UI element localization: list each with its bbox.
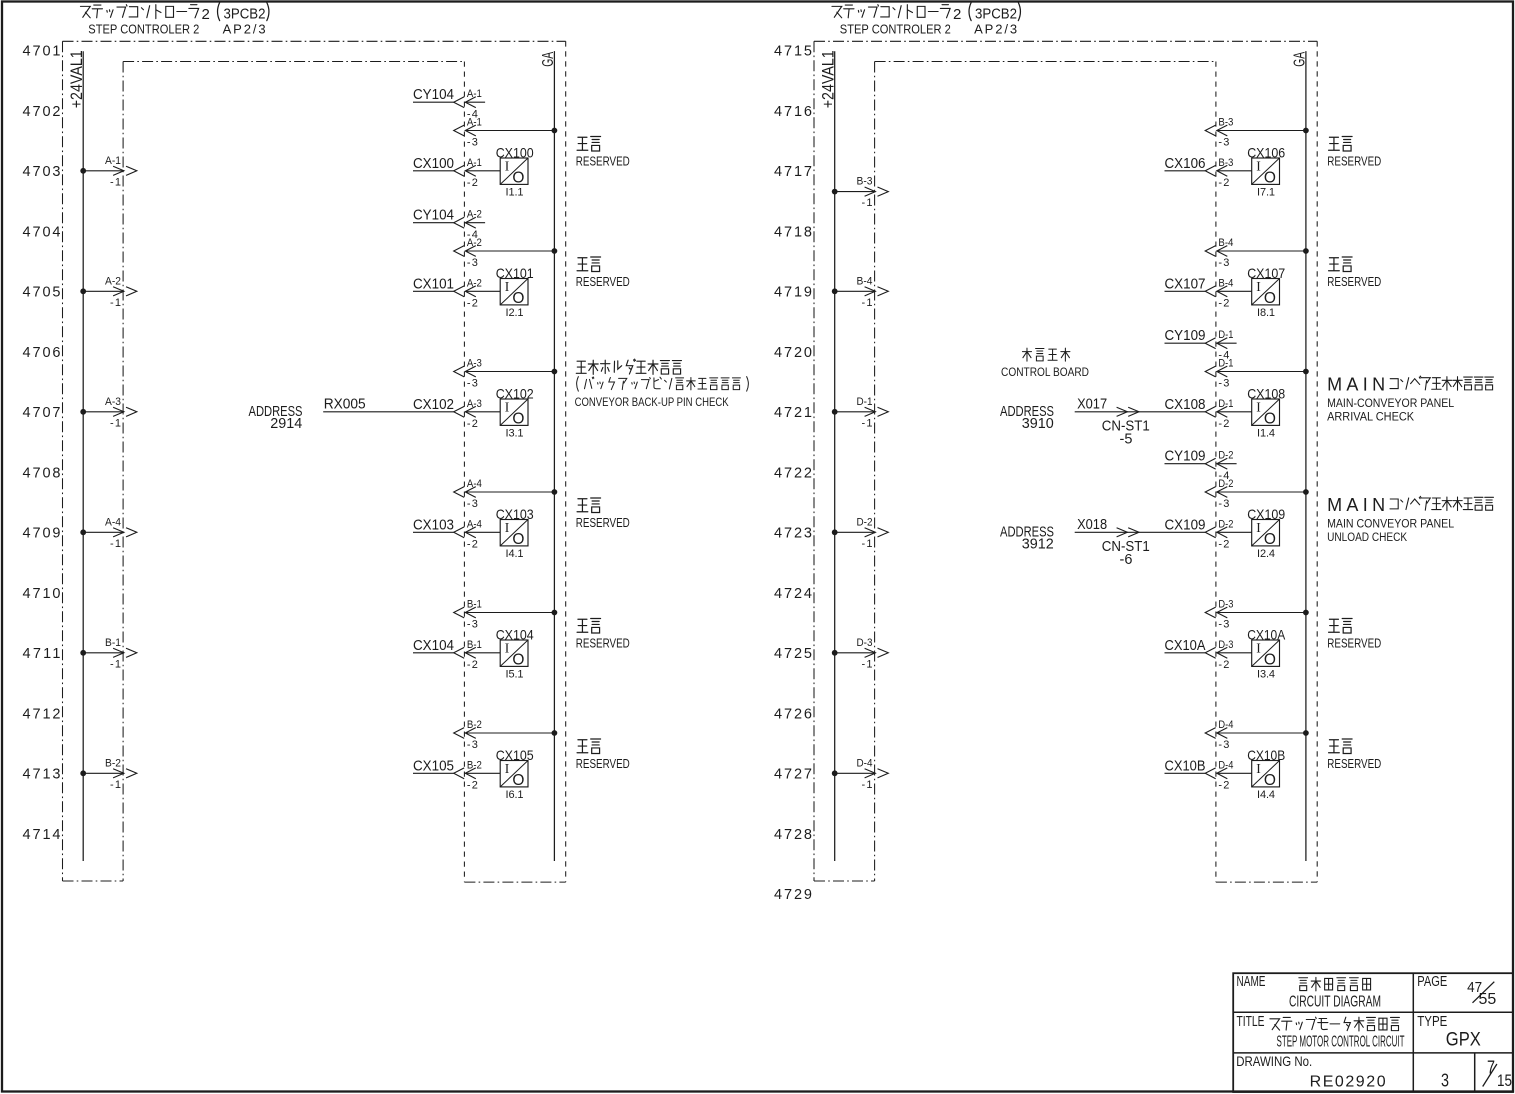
svg-text:-2: -2	[467, 539, 478, 551]
svg-text:4721: 4721	[774, 405, 812, 421]
svg-text:D-3: D-3	[1218, 599, 1233, 611]
svg-text:I1.4: I1.4	[1257, 428, 1275, 440]
svg-text:CX10A: CX10A	[1247, 627, 1286, 643]
svg-text:CX10B: CX10B	[1165, 758, 1206, 774]
svg-text:O: O	[1264, 169, 1276, 186]
svg-text:-2: -2	[467, 298, 478, 310]
svg-text:4720: 4720	[774, 345, 812, 361]
svg-text:CONVEYOR BACK-UP PIN CHECK: CONVEYOR BACK-UP PIN CHECK	[575, 395, 729, 409]
svg-text:-2: -2	[1218, 780, 1229, 792]
svg-text:A-4: A-4	[467, 518, 482, 530]
svg-text:D-2: D-2	[1218, 450, 1233, 462]
svg-text:-2: -2	[467, 659, 478, 671]
svg-text:I: I	[1256, 761, 1261, 776]
svg-text:-2: -2	[1218, 659, 1229, 671]
svg-text:-3: -3	[467, 498, 478, 510]
svg-text:-2: -2	[1218, 418, 1229, 430]
svg-text:B-1: B-1	[467, 599, 482, 611]
svg-text:4717: 4717	[774, 164, 812, 180]
svg-text:-1: -1	[110, 779, 121, 791]
svg-text:+24VAL1: +24VAL1	[67, 50, 86, 108]
svg-text:3PCB2: 3PCB2	[224, 6, 266, 23]
svg-text:-2: -2	[467, 780, 478, 792]
svg-text:STEP MOTOR CONTROL CIRCUIT: STEP MOTOR CONTROL CIRCUIT	[1277, 1034, 1405, 1051]
svg-text:D-4: D-4	[1218, 759, 1233, 771]
svg-text:I1.1: I1.1	[506, 187, 524, 199]
svg-text:D-1: D-1	[857, 396, 873, 408]
svg-text:MAIN: MAIN	[1327, 495, 1385, 515]
svg-text:CX108: CX108	[1165, 397, 1206, 413]
svg-text:55: 55	[1479, 991, 1497, 1008]
svg-text:CX101: CX101	[413, 276, 454, 292]
svg-text:RESERVED: RESERVED	[1327, 274, 1381, 289]
svg-text:A-2: A-2	[467, 209, 482, 221]
svg-text:-3: -3	[467, 137, 478, 149]
svg-text:CX10A: CX10A	[1165, 638, 1206, 654]
svg-text:I: I	[1256, 520, 1261, 535]
svg-text:D-2: D-2	[1218, 518, 1233, 530]
svg-text:4701: 4701	[23, 44, 61, 60]
svg-text:-1: -1	[110, 297, 121, 309]
svg-text:-3: -3	[1218, 739, 1229, 751]
svg-text:CX107: CX107	[1165, 276, 1206, 292]
svg-text:CX103: CX103	[413, 517, 454, 533]
svg-text:B-4: B-4	[1218, 277, 1233, 289]
svg-text:O: O	[512, 290, 524, 307]
svg-text:-6: -6	[1120, 552, 1133, 568]
svg-text:-2: -2	[1218, 177, 1229, 189]
svg-text:CX106: CX106	[1247, 145, 1285, 161]
svg-text:I2.1: I2.1	[506, 307, 524, 319]
svg-text:GA: GA	[1292, 51, 1309, 66]
svg-text:I: I	[1256, 158, 1261, 173]
svg-text:A-3: A-3	[467, 358, 482, 370]
svg-text:15: 15	[1497, 1072, 1512, 1090]
svg-text:A-1: A-1	[105, 155, 121, 167]
svg-text:CY109: CY109	[1165, 328, 1206, 344]
svg-text:RESERVED: RESERVED	[576, 635, 630, 650]
svg-text:4702: 4702	[23, 104, 61, 120]
svg-text:X018: X018	[1077, 517, 1107, 533]
svg-text:RESERVED: RESERVED	[576, 274, 630, 289]
svg-text:O: O	[1264, 410, 1276, 427]
svg-text:CX10B: CX10B	[1247, 747, 1285, 763]
svg-text:CX100: CX100	[413, 156, 454, 172]
svg-text:-1: -1	[862, 658, 873, 670]
svg-text:RX005: RX005	[324, 396, 366, 412]
svg-text:-1: -1	[862, 417, 873, 429]
svg-text:4725: 4725	[774, 646, 812, 662]
svg-text:I4.4: I4.4	[1257, 789, 1275, 801]
svg-text:O: O	[512, 169, 524, 186]
svg-text:O: O	[512, 410, 524, 427]
svg-text:-1: -1	[862, 197, 873, 209]
svg-text:I3.4: I3.4	[1257, 669, 1275, 681]
svg-text:CX102: CX102	[496, 386, 534, 402]
svg-text:CX101: CX101	[496, 265, 534, 281]
svg-text:I: I	[505, 158, 510, 173]
svg-text:+24VAL1: +24VAL1	[819, 50, 838, 108]
svg-text:-1: -1	[862, 297, 873, 309]
svg-text:B-3: B-3	[1218, 157, 1233, 169]
svg-text:-4: -4	[1218, 349, 1229, 361]
svg-text:4707: 4707	[23, 405, 61, 421]
svg-text:3: 3	[1441, 1070, 1449, 1091]
svg-text:-3: -3	[467, 739, 478, 751]
svg-text:-1: -1	[110, 417, 121, 429]
svg-text:-4: -4	[467, 229, 478, 241]
svg-text:MAIN CONVEYOR PANEL: MAIN CONVEYOR PANEL	[1327, 519, 1455, 531]
svg-text:-3: -3	[1218, 257, 1229, 269]
svg-text:4706: 4706	[23, 345, 61, 361]
svg-text:O: O	[1264, 651, 1276, 668]
svg-text:I: I	[505, 640, 510, 655]
svg-text:4710: 4710	[23, 586, 61, 602]
svg-text:CX104: CX104	[413, 638, 454, 654]
svg-text:2: 2	[202, 6, 210, 23]
svg-text:MAIN-CONVEYOR PANEL: MAIN-CONVEYOR PANEL	[1327, 398, 1455, 410]
svg-text:CY104: CY104	[413, 208, 454, 224]
svg-text:D-4: D-4	[857, 757, 873, 769]
svg-text:A-1: A-1	[467, 88, 482, 100]
svg-text:7: 7	[1487, 1058, 1495, 1078]
svg-text:RESERVED: RESERVED	[576, 756, 630, 771]
svg-text:B-3: B-3	[857, 176, 873, 188]
svg-text:4712: 4712	[23, 706, 61, 722]
svg-text:CX104: CX104	[496, 627, 534, 643]
svg-text:PAGE: PAGE	[1417, 973, 1447, 990]
svg-text:I5.1: I5.1	[506, 669, 524, 681]
svg-text:4723: 4723	[774, 526, 812, 542]
svg-text:NAME: NAME	[1237, 973, 1266, 990]
svg-text:O: O	[1264, 772, 1276, 789]
svg-text:2914: 2914	[270, 416, 302, 432]
svg-text:CIRCUIT DIAGRAM: CIRCUIT DIAGRAM	[1289, 994, 1381, 1011]
svg-text:A-2: A-2	[105, 275, 121, 287]
svg-text:4718: 4718	[774, 224, 812, 240]
svg-text:4727: 4727	[774, 767, 812, 783]
svg-text:D-3: D-3	[1218, 639, 1233, 651]
svg-text:AP2/3: AP2/3	[223, 21, 266, 36]
svg-text:-1: -1	[110, 538, 121, 550]
svg-text:4703: 4703	[23, 164, 61, 180]
svg-text:RESERVED: RESERVED	[1327, 635, 1381, 650]
svg-text:A-2: A-2	[467, 277, 482, 289]
svg-text:I: I	[505, 520, 510, 535]
svg-text:4714: 4714	[23, 827, 61, 843]
svg-text:A-4: A-4	[467, 478, 482, 490]
svg-text:STEP CONTROLER 2: STEP CONTROLER 2	[840, 21, 951, 36]
svg-text:CX105: CX105	[496, 747, 534, 763]
svg-text:-1: -1	[862, 779, 873, 791]
svg-text:A-1: A-1	[467, 157, 482, 169]
svg-text:-2: -2	[1218, 298, 1229, 310]
svg-text:X017: X017	[1077, 396, 1107, 412]
svg-text:I2.4: I2.4	[1257, 548, 1275, 560]
svg-text:A-3: A-3	[105, 396, 121, 408]
svg-text:I: I	[1256, 399, 1261, 414]
svg-text:RESERVED: RESERVED	[576, 153, 630, 168]
svg-text:4704: 4704	[23, 224, 61, 240]
svg-text:3912: 3912	[1022, 536, 1054, 552]
svg-text:A-4: A-4	[105, 516, 121, 528]
svg-text:2: 2	[953, 6, 961, 23]
svg-text:B-3: B-3	[1218, 117, 1233, 129]
svg-text:CX107: CX107	[1247, 265, 1285, 281]
svg-text:RESERVED: RESERVED	[1327, 756, 1381, 771]
svg-text:4715: 4715	[774, 44, 812, 60]
svg-text:4709: 4709	[23, 526, 61, 542]
svg-text:-3: -3	[467, 257, 478, 269]
svg-text:RESERVED: RESERVED	[1327, 153, 1381, 168]
svg-text:D-1: D-1	[1218, 329, 1233, 341]
svg-text:I7.1: I7.1	[1257, 187, 1275, 199]
svg-text:CY109: CY109	[1165, 449, 1206, 465]
svg-text:B-4: B-4	[1218, 237, 1233, 249]
svg-text:-2: -2	[467, 418, 478, 430]
svg-text:RESERVED: RESERVED	[576, 515, 630, 530]
svg-text:CX109: CX109	[1247, 506, 1285, 522]
svg-text:-3: -3	[467, 378, 478, 390]
svg-text:CX100: CX100	[496, 145, 534, 161]
svg-text:4705: 4705	[23, 285, 61, 301]
svg-text:GPX: GPX	[1446, 1030, 1481, 1051]
svg-text:4722: 4722	[774, 465, 812, 481]
svg-text:-2: -2	[1218, 539, 1229, 551]
svg-text:-3: -3	[1218, 619, 1229, 631]
svg-text:B-2: B-2	[467, 759, 482, 771]
svg-text:I4.1: I4.1	[506, 548, 524, 560]
svg-text:CX106: CX106	[1165, 156, 1206, 172]
svg-text:CONTROL BOARD: CONTROL BOARD	[1001, 367, 1089, 379]
svg-text:-2: -2	[467, 177, 478, 189]
svg-text:-3: -3	[1218, 137, 1229, 149]
svg-text:-4: -4	[467, 108, 478, 120]
svg-text:-3: -3	[1218, 378, 1229, 390]
svg-text:MAIN: MAIN	[1327, 375, 1385, 395]
svg-text:A-3: A-3	[467, 398, 482, 410]
svg-text:4726: 4726	[774, 706, 812, 722]
svg-text:GA: GA	[540, 51, 557, 66]
svg-text:D-1: D-1	[1218, 398, 1233, 410]
svg-text:-1: -1	[862, 538, 873, 550]
svg-text:-1: -1	[110, 176, 121, 188]
svg-text:CX105: CX105	[413, 758, 454, 774]
svg-text:I6.1: I6.1	[506, 789, 524, 801]
svg-text:O: O	[1264, 531, 1276, 548]
svg-text:I8.1: I8.1	[1257, 307, 1275, 319]
svg-text:O: O	[512, 772, 524, 789]
svg-text:DRAWING No.: DRAWING No.	[1236, 1053, 1312, 1069]
svg-text:B-4: B-4	[857, 275, 873, 287]
svg-text:O: O	[512, 651, 524, 668]
svg-text:4728: 4728	[774, 827, 812, 843]
svg-text:4719: 4719	[774, 285, 812, 301]
svg-text:ARRIVAL CHECK: ARRIVAL CHECK	[1327, 411, 1414, 423]
svg-text:-3: -3	[1218, 498, 1229, 510]
svg-text:B-2: B-2	[467, 719, 482, 731]
svg-text:CY104: CY104	[413, 87, 454, 103]
svg-text:I3.1: I3.1	[506, 428, 524, 440]
svg-text:D-3: D-3	[857, 637, 873, 649]
svg-text:B-1: B-1	[105, 637, 121, 649]
svg-text:I: I	[505, 399, 510, 414]
svg-text:AP2/3: AP2/3	[974, 21, 1017, 36]
svg-text:D-2: D-2	[857, 516, 873, 528]
svg-text:RE02920: RE02920	[1310, 1074, 1386, 1091]
svg-text:3PCB2: 3PCB2	[975, 6, 1017, 23]
svg-text:CX109: CX109	[1165, 517, 1206, 533]
svg-text:CX103: CX103	[496, 506, 534, 522]
svg-text:4724: 4724	[774, 586, 812, 602]
svg-text:UNLOAD CHECK: UNLOAD CHECK	[1327, 532, 1407, 544]
svg-text:-5: -5	[1120, 432, 1133, 448]
svg-text:4729: 4729	[774, 887, 812, 903]
svg-text:TITLE: TITLE	[1237, 1013, 1265, 1030]
svg-text:CX102: CX102	[413, 397, 454, 413]
svg-text:4713: 4713	[23, 767, 61, 783]
svg-text:D-4: D-4	[1218, 719, 1233, 731]
svg-text:I: I	[505, 761, 510, 776]
svg-text:4708: 4708	[23, 465, 61, 481]
svg-text:I: I	[505, 279, 510, 294]
svg-text:O: O	[1264, 290, 1276, 307]
svg-text:-1: -1	[110, 658, 121, 670]
svg-text:-4: -4	[1218, 470, 1229, 482]
svg-text:3910: 3910	[1022, 416, 1054, 432]
svg-text:I: I	[1256, 279, 1261, 294]
svg-text:B-2: B-2	[105, 757, 121, 769]
svg-text:I: I	[1256, 640, 1261, 655]
svg-text:4716: 4716	[774, 104, 812, 120]
svg-text:STEP CONTROLER 2: STEP CONTROLER 2	[88, 21, 199, 36]
svg-text:-3: -3	[467, 619, 478, 631]
svg-text:TYPE: TYPE	[1417, 1013, 1447, 1030]
svg-text:CX108: CX108	[1247, 386, 1285, 402]
svg-text:O: O	[512, 531, 524, 548]
svg-text:B-1: B-1	[467, 639, 482, 651]
